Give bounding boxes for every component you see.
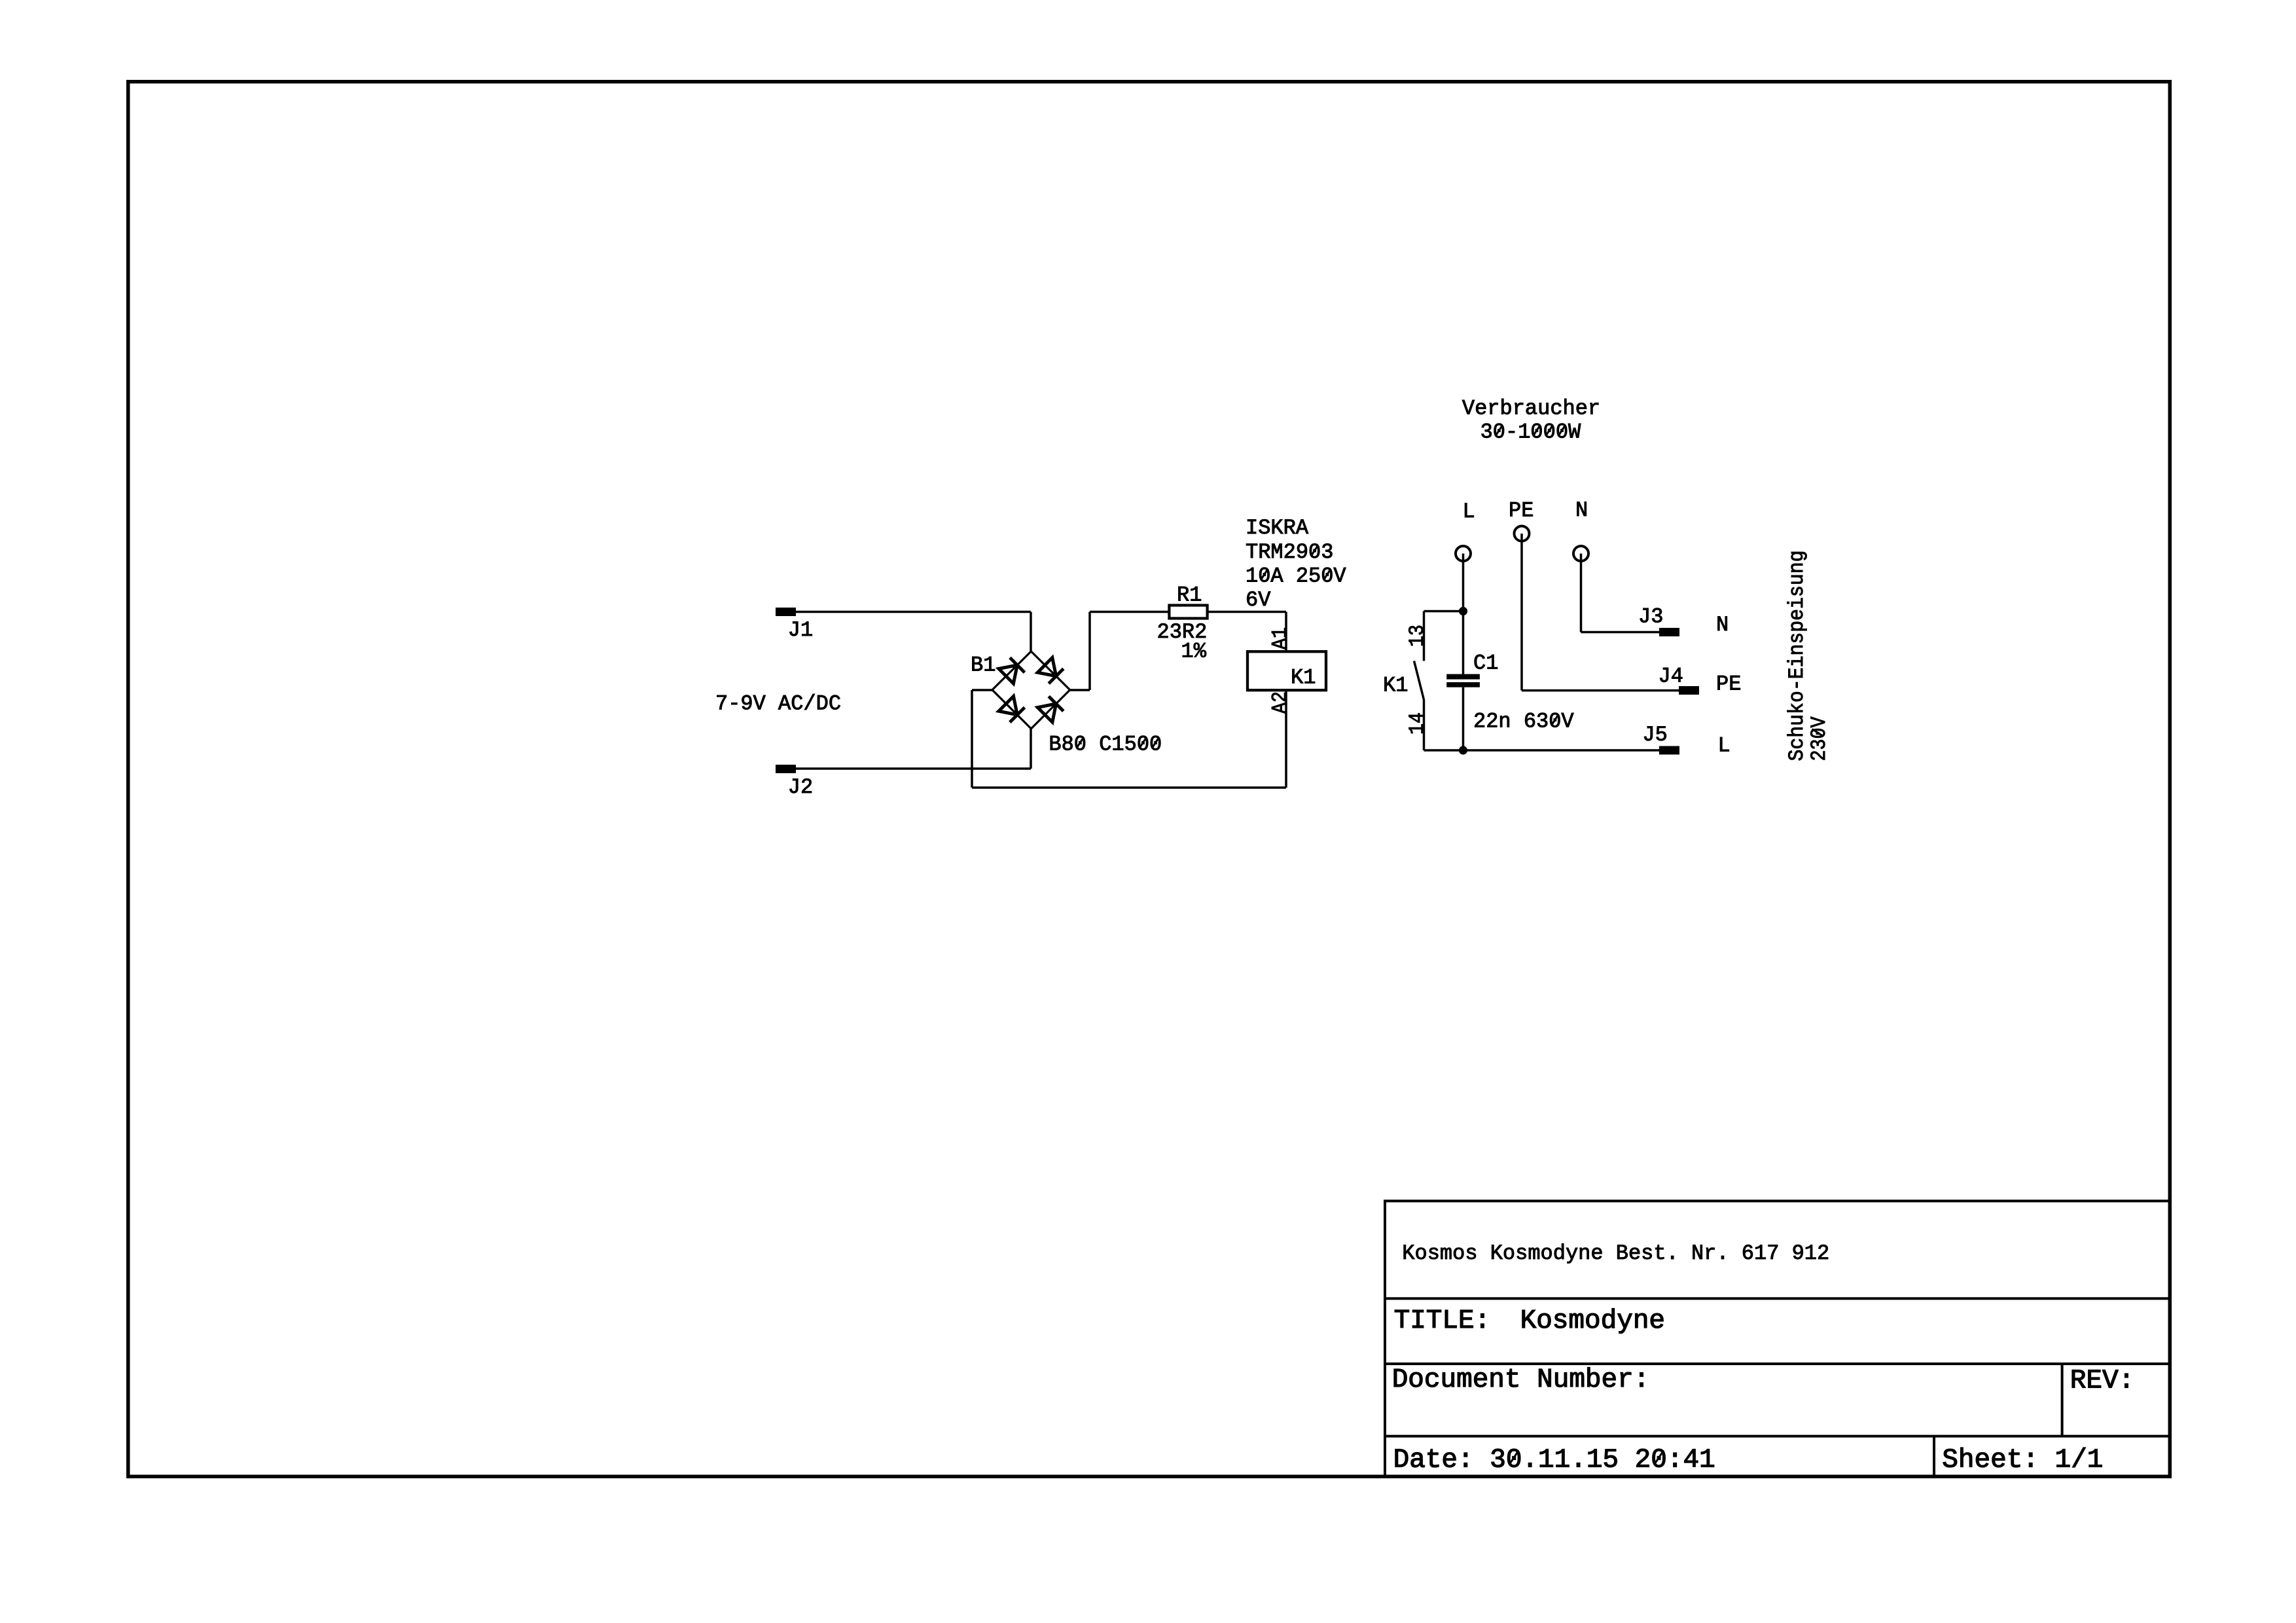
svg-text:14: 14	[1405, 712, 1429, 735]
svg-text:ISKRA: ISKRA	[1246, 516, 1309, 540]
svg-text:C1: C1	[1473, 651, 1498, 675]
svg-text:B80 C1500: B80 C1500	[1049, 732, 1162, 756]
svg-text:J4: J4	[1659, 664, 1683, 688]
svg-text:K1: K1	[1383, 673, 1408, 697]
svg-text:30-1000W: 30-1000W	[1480, 420, 1581, 445]
svg-text:PE: PE	[1509, 499, 1534, 523]
svg-text:1%: 1%	[1181, 640, 1207, 664]
svg-text:Sheet: 1/1: Sheet: 1/1	[1942, 1445, 2103, 1475]
svg-text:J5: J5	[1642, 723, 1667, 747]
svg-text:J3: J3	[1638, 605, 1663, 629]
svg-text:N: N	[1575, 498, 1588, 522]
svg-text:J1: J1	[788, 618, 813, 642]
svg-text:REV:: REV:	[2070, 1366, 2134, 1396]
svg-text:7-9V AC/DC: 7-9V AC/DC	[715, 692, 841, 716]
svg-text:TRM2903: TRM2903	[1246, 540, 1333, 564]
svg-text:Kosmodyne: Kosmodyne	[1520, 1306, 1665, 1336]
svg-text:TITLE:: TITLE:	[1394, 1306, 1491, 1336]
svg-text:B1: B1	[971, 653, 996, 678]
svg-text:R1: R1	[1177, 583, 1202, 607]
svg-text:J2: J2	[788, 775, 813, 799]
svg-text:L: L	[1463, 500, 1475, 524]
svg-text:K1: K1	[1291, 665, 1316, 689]
svg-text:PE: PE	[1716, 672, 1741, 697]
svg-text:22n 630V: 22n 630V	[1473, 710, 1574, 734]
svg-text:Verbraucher: Verbraucher	[1462, 396, 1600, 420]
svg-text:6V: 6V	[1246, 588, 1271, 612]
svg-text:A1: A1	[1268, 627, 1292, 649]
svg-text:230V: 230V	[1807, 716, 1831, 761]
svg-text:10A 250V: 10A 250V	[1246, 564, 1346, 589]
svg-text:Document Number:: Document Number:	[1392, 1365, 1650, 1395]
svg-text:Date: 30.11.15 20:41: Date: 30.11.15 20:41	[1393, 1445, 1715, 1475]
svg-text:L: L	[1718, 734, 1731, 758]
svg-text:Kosmos Kosmodyne Best. Nr. 617: Kosmos Kosmodyne Best. Nr. 617 912	[1402, 1241, 1829, 1266]
svg-text:13: 13	[1405, 625, 1429, 647]
svg-text:A2: A2	[1268, 691, 1292, 714]
svg-text:N: N	[1716, 613, 1729, 637]
svg-text:Schuko-Einspeisung: Schuko-Einspeisung	[1785, 551, 1809, 761]
